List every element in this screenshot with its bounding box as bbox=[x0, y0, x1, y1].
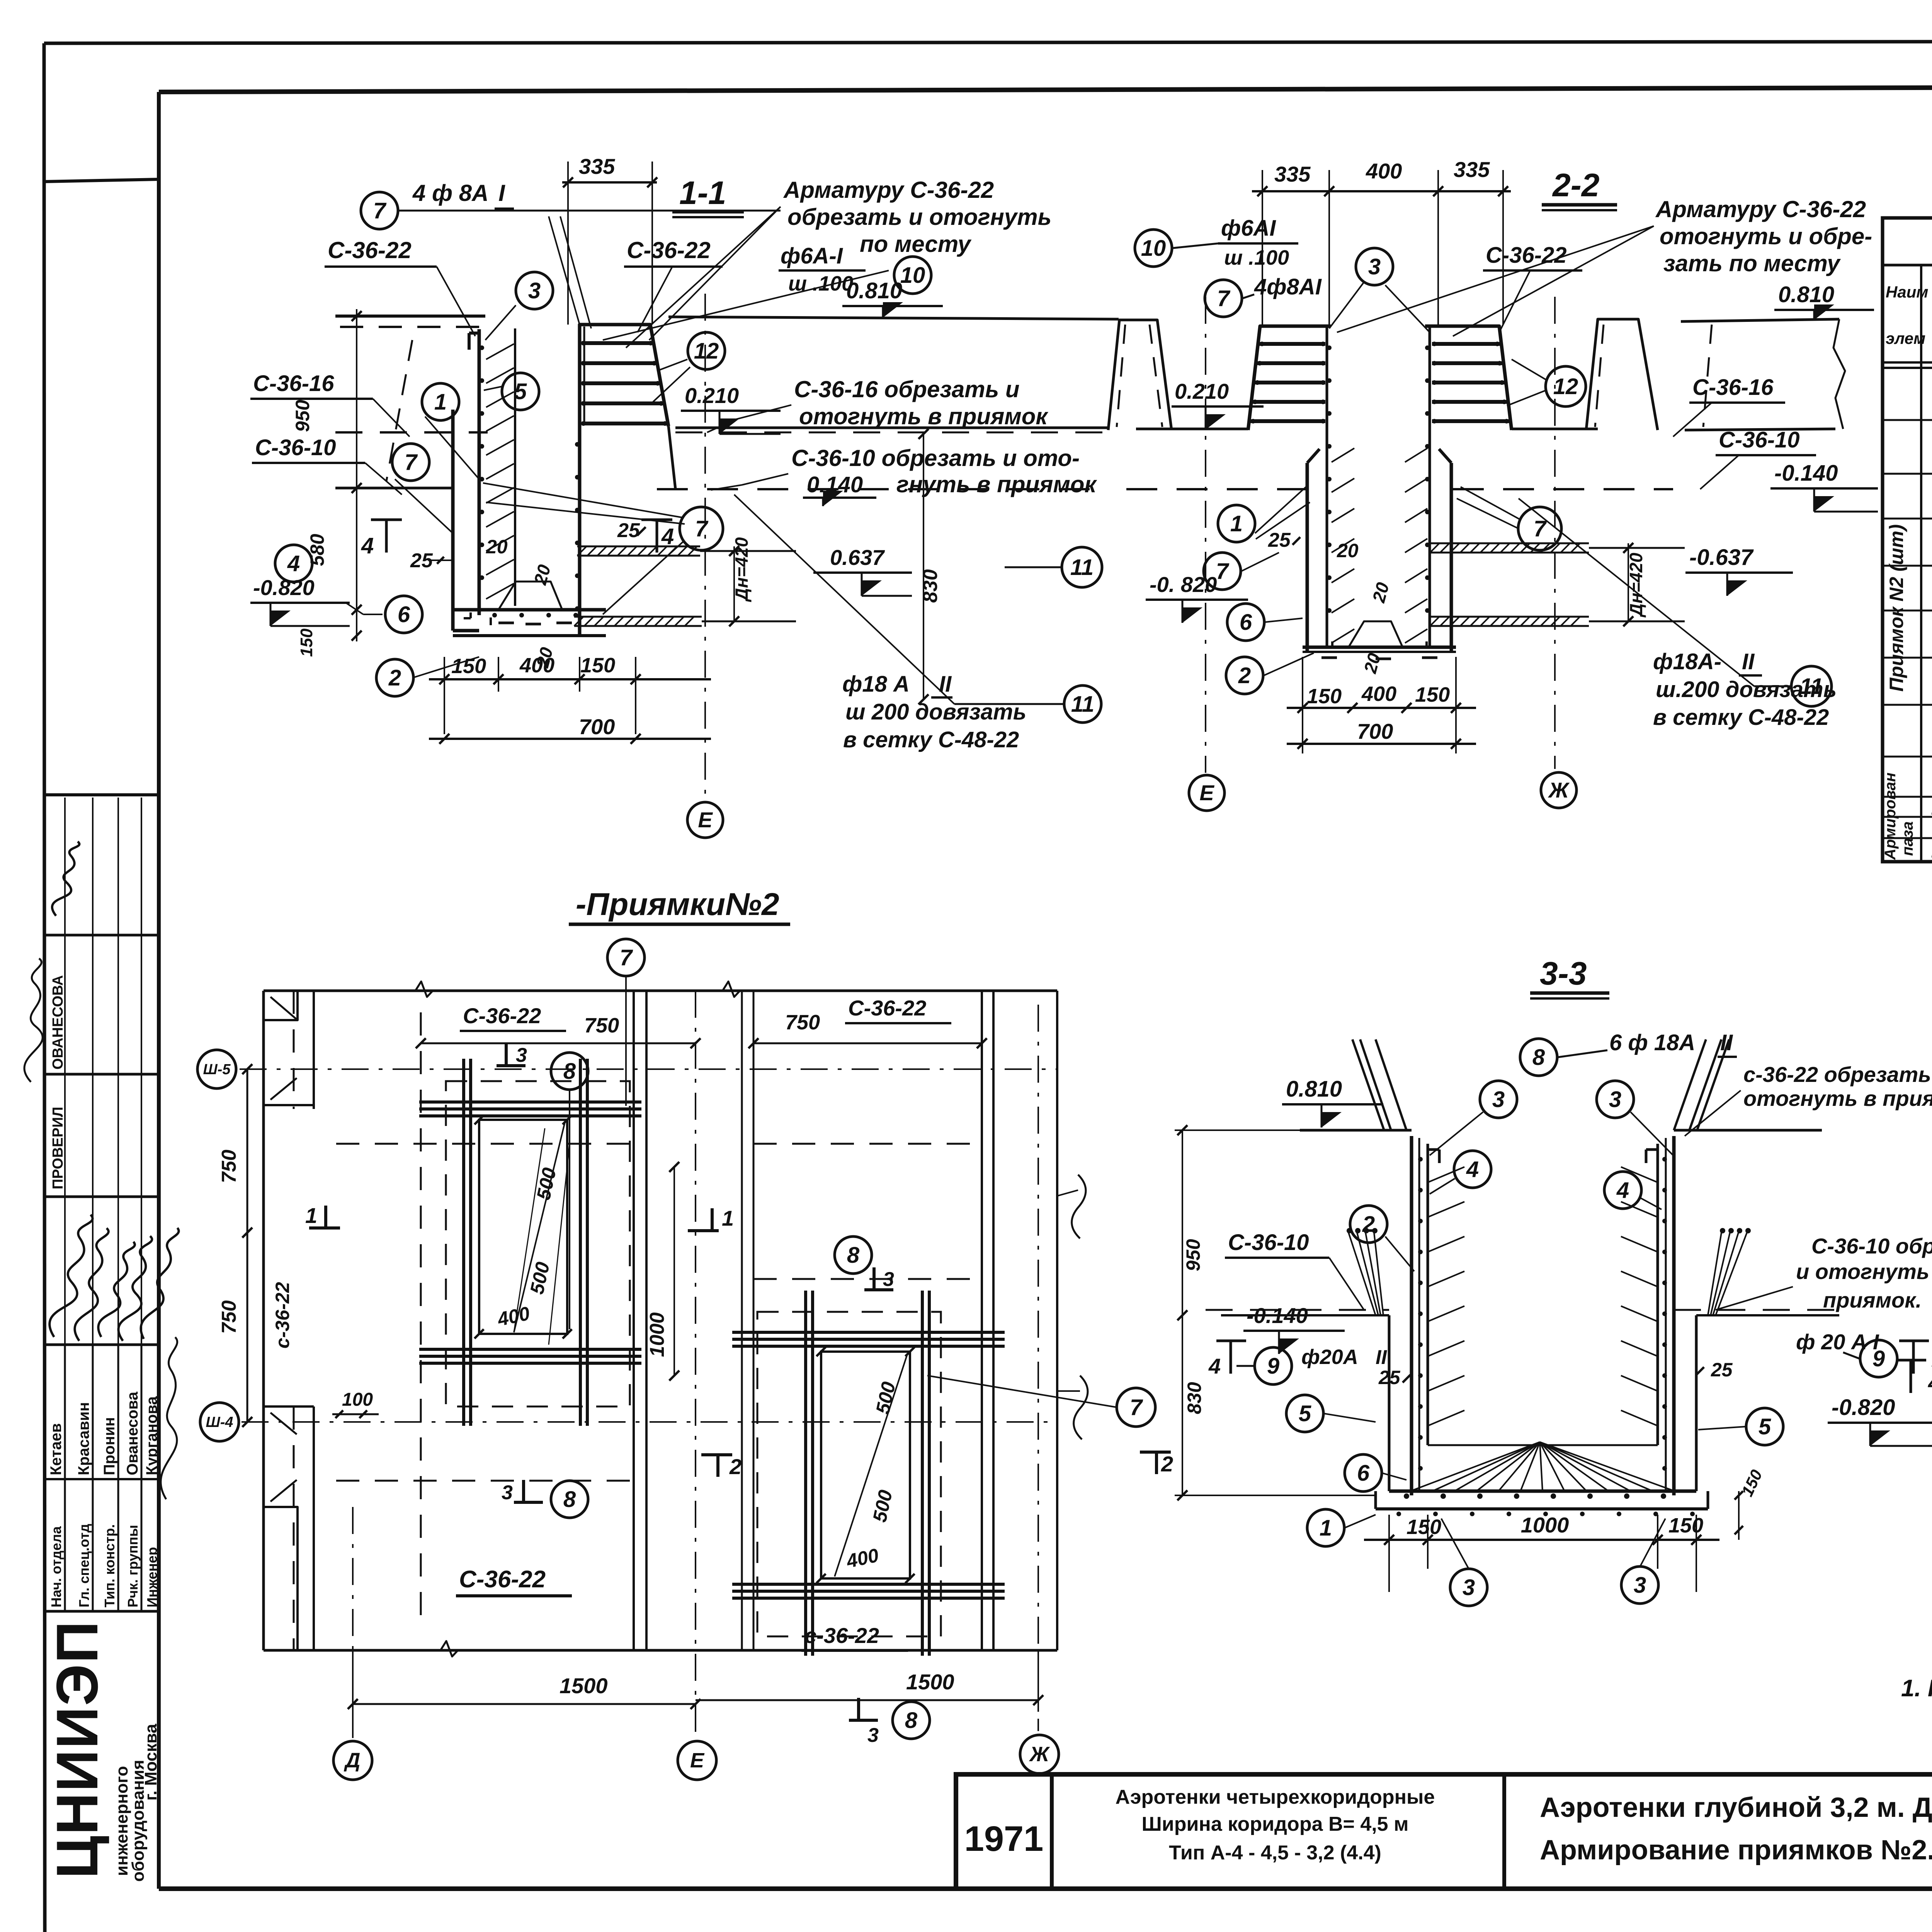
svg-text:10: 10 bbox=[1141, 236, 1166, 261]
svg-text:1. Примечания см. лист КС-17: 1. Примечания см. лист КС-17 bbox=[1901, 1675, 1932, 1702]
svg-text:7: 7 bbox=[373, 198, 387, 223]
svg-text:2: 2 bbox=[729, 1454, 742, 1479]
svg-text:20: 20 bbox=[486, 536, 508, 558]
svg-text:700: 700 bbox=[579, 714, 615, 739]
svg-text:7: 7 bbox=[695, 516, 709, 541]
svg-text:4: 4 bbox=[361, 533, 374, 558]
plan left pit bars horizontal bbox=[419, 1100, 641, 1104]
2-2 right ladder trapezoid bbox=[1425, 326, 1512, 430]
plan axis balloons bottom bbox=[333, 1741, 372, 1780]
svg-text:ф 20 А I: ф 20 А I bbox=[1796, 1330, 1879, 1354]
svg-text:II: II bbox=[939, 672, 952, 697]
2-2 balloon 10 bbox=[1135, 230, 1172, 267]
svg-text:ф20А: ф20А bbox=[1301, 1345, 1358, 1369]
1-1 shaft vertical line bbox=[514, 328, 516, 606]
plan right break squiggles bbox=[1072, 1175, 1086, 1238]
spec table outer border bbox=[1883, 218, 1932, 862]
svg-text:150: 150 bbox=[451, 655, 486, 678]
svg-text:4: 4 bbox=[287, 551, 300, 576]
svg-text:400: 400 bbox=[1361, 682, 1396, 706]
svg-text:5: 5 bbox=[1299, 1401, 1311, 1426]
plan dim 1000 rotated bbox=[673, 1167, 675, 1376]
svg-text:Наим: Наим bbox=[1886, 283, 1928, 301]
3-3 pit floor bbox=[1389, 1490, 1696, 1493]
svg-text:4: 4 bbox=[1616, 1178, 1629, 1203]
svg-text:7: 7 bbox=[1130, 1395, 1143, 1420]
svg-text:С-36-10: С-36-10 bbox=[255, 435, 336, 460]
plan right pit diagonal bbox=[835, 1354, 907, 1577]
svg-text:зать по месту: зать по месту bbox=[1663, 250, 1841, 276]
svg-text:3-3: 3-3 bbox=[1540, 955, 1587, 992]
svg-text:Тип. констр.: Тип. констр. bbox=[102, 1524, 117, 1607]
svg-text:12: 12 bbox=[694, 338, 719, 364]
svg-text:г. Москва: г. Москва bbox=[141, 1724, 160, 1801]
1-1 dim 700 bbox=[429, 738, 711, 740]
svg-text:ф6А-I: ф6А-I bbox=[781, 243, 844, 269]
svg-text:335: 335 bbox=[1274, 162, 1311, 186]
svg-text:6 ф 18А: 6 ф 18А bbox=[1609, 1030, 1695, 1055]
plan balloons 8 bbox=[551, 1053, 588, 1090]
2-2 far right slab with break bbox=[1681, 319, 1839, 321]
balloon 7 top bbox=[361, 192, 398, 229]
svg-text:1: 1 bbox=[305, 1203, 317, 1228]
svg-text:с-36-22: с-36-22 bbox=[804, 1623, 879, 1648]
svg-text:7: 7 bbox=[405, 450, 418, 475]
svg-text:12: 12 bbox=[1553, 374, 1578, 399]
1-1 top slab left edge bbox=[335, 315, 485, 318]
2-2 axis balloons E Zh bbox=[1189, 775, 1225, 811]
svg-text:25: 25 bbox=[1268, 529, 1291, 551]
svg-text:100: 100 bbox=[342, 1389, 373, 1410]
plan axis D vertical bbox=[352, 1507, 354, 1739]
2-2 right wall2 trapezoid bbox=[1586, 319, 1658, 430]
svg-text:С-36-22: С-36-22 bbox=[459, 1566, 546, 1593]
svg-text:II: II bbox=[1376, 1346, 1387, 1369]
1-1 balloon leaders bbox=[425, 417, 479, 479]
svg-text:11: 11 bbox=[1071, 692, 1094, 717]
plan axis III-5 bbox=[240, 1068, 1057, 1070]
svg-text:5: 5 bbox=[1759, 1414, 1771, 1439]
svg-text:по месту: по месту bbox=[860, 231, 972, 257]
svg-text:4: 4 bbox=[1928, 1371, 1932, 1395]
svg-text:4 ф 8А: 4 ф 8А bbox=[412, 180, 489, 206]
svg-text:1: 1 bbox=[722, 1206, 734, 1230]
svg-text:Ш-4: Ш-4 bbox=[206, 1414, 233, 1430]
svg-text:в сетку С-48-22: в сетку С-48-22 bbox=[843, 727, 1019, 752]
svg-text:400: 400 bbox=[519, 654, 554, 677]
svg-text:6: 6 bbox=[398, 602, 410, 627]
svg-text:700: 700 bbox=[1357, 719, 1393, 743]
2-2 pit bottom key bbox=[1349, 621, 1403, 647]
1-1 slab dashed diagonal bbox=[386, 340, 412, 481]
plan axis E vertical bbox=[695, 991, 696, 1739]
svg-text:Е: Е bbox=[698, 808, 713, 832]
svg-text:25: 25 bbox=[1711, 1359, 1733, 1381]
2-2 pit bottom hooks bbox=[1321, 656, 1337, 659]
1-1 slab mid dashed S-36-16 level bbox=[335, 431, 488, 434]
1-1 axis E dash-dot bbox=[704, 294, 706, 796]
3-3 right rebar fan bbox=[1708, 1233, 1721, 1315]
3-3 pit walls bbox=[1410, 1136, 1413, 1495]
sidebar signatures bbox=[45, 1213, 102, 1340]
svg-text:6: 6 bbox=[1240, 610, 1252, 635]
1-1 hatched slab bands right bbox=[577, 546, 700, 548]
svg-text:С-36-10 обрезать и ото-: С-36-10 обрезать и ото- bbox=[791, 445, 1080, 471]
svg-text:25: 25 bbox=[617, 519, 640, 542]
2-2 balloon 11 bbox=[1791, 666, 1832, 706]
svg-text:20: 20 bbox=[1337, 540, 1359, 561]
svg-text:-0.140: -0.140 bbox=[1774, 461, 1838, 486]
svg-text:ш .100: ш .100 bbox=[788, 272, 853, 295]
svg-text:элем: элем bbox=[1886, 329, 1925, 347]
svg-text:3: 3 bbox=[1463, 1575, 1475, 1600]
svg-text:Армирование приямков №2.: Армирование приямков №2. bbox=[1540, 1835, 1932, 1866]
svg-text:8: 8 bbox=[905, 1708, 918, 1733]
plan right pit opening rect bbox=[821, 1352, 910, 1578]
svg-text:Ж: Ж bbox=[1029, 1743, 1050, 1766]
3-3 wall inner bars bbox=[1428, 1167, 1464, 1182]
plan axis Zh vertical bbox=[1038, 990, 1057, 991]
sidebar signature cell squiggle bbox=[49, 840, 87, 918]
3-3 section mark 4 right bbox=[1912, 1341, 1915, 1374]
svg-text:2: 2 bbox=[1161, 1452, 1173, 1476]
svg-text:3: 3 bbox=[1492, 1087, 1505, 1112]
svg-text:150: 150 bbox=[1668, 1514, 1703, 1537]
svg-text:гнуть в приямок: гнуть в приямок bbox=[896, 471, 1097, 497]
svg-text:с-36-22 обрезать и: с-36-22 обрезать и bbox=[1743, 1062, 1932, 1087]
leader lines to wall top bbox=[549, 216, 580, 325]
svg-text:С-36-16 обрезать и: С-36-16 обрезать и bbox=[794, 376, 1020, 402]
3-3 left dim chain bbox=[1182, 1130, 1183, 1495]
svg-text:-0.820: -0.820 bbox=[1832, 1395, 1895, 1420]
plan section marks 1 bbox=[309, 1226, 340, 1230]
svg-text:ЦНИИЭП: ЦНИИЭП bbox=[44, 1620, 110, 1879]
svg-text:Инженер: Инженер bbox=[144, 1547, 160, 1607]
svg-text:5: 5 bbox=[514, 379, 527, 404]
svg-text:10: 10 bbox=[900, 263, 925, 288]
svg-text:С-36-22: С-36-22 bbox=[848, 996, 926, 1020]
svg-text:8: 8 bbox=[1532, 1045, 1545, 1070]
plan balloon 7 right bbox=[1117, 1388, 1155, 1427]
svg-text:Е: Е bbox=[1199, 781, 1214, 805]
2-2 floor dashed levels bbox=[1126, 488, 1306, 490]
svg-text:4: 4 bbox=[1208, 1354, 1221, 1378]
svg-text:-0. 820: -0. 820 bbox=[1150, 572, 1217, 597]
svg-text:11: 11 bbox=[1070, 555, 1094, 580]
svg-text:3: 3 bbox=[867, 1724, 879, 1747]
svg-text:и отогнуть в: и отогнуть в bbox=[1796, 1259, 1932, 1284]
spec table title dividers bbox=[1883, 264, 1932, 267]
svg-text:7: 7 bbox=[1217, 286, 1231, 311]
svg-text:ПРОВЕРИЛ: ПРОВЕРИЛ bbox=[50, 1107, 66, 1189]
svg-text:0.810: 0.810 bbox=[1286, 1077, 1342, 1102]
1-1 pit bottom slab bbox=[453, 608, 606, 612]
svg-text:ф18 А: ф18 А bbox=[842, 672, 910, 697]
svg-text:II: II bbox=[1742, 649, 1755, 674]
svg-text:ш .100: ш .100 bbox=[1224, 246, 1289, 269]
svg-text:1: 1 bbox=[1230, 511, 1243, 536]
1-1 floor right of wall bbox=[675, 427, 1108, 429]
svg-text:9: 9 bbox=[1267, 1354, 1279, 1379]
plan balloon 7 top bbox=[607, 939, 645, 976]
1-1 pit right wall bbox=[578, 426, 582, 636]
3-3 top slab lines bbox=[1300, 1129, 1412, 1132]
svg-text:паза: паза bbox=[1899, 821, 1916, 856]
plan section marks 3 bbox=[505, 1043, 508, 1066]
sidebar staff rows dividers bbox=[64, 1345, 66, 1611]
svg-text:Аэротенки глубиной 3,2 м.: Аэротенки глубиной 3,2 м. Днище. bbox=[1540, 1792, 1932, 1823]
svg-text:С-36-16: С-36-16 bbox=[1692, 375, 1774, 400]
svg-text:2: 2 bbox=[388, 665, 401, 690]
plan wall verticals bbox=[313, 991, 315, 1109]
sidebar stamp block top line bbox=[44, 793, 159, 796]
plan left pit dashed outline bbox=[446, 1081, 630, 1406]
svg-text:750: 750 bbox=[785, 1011, 820, 1034]
svg-text:950: 950 bbox=[292, 400, 313, 432]
svg-text:1000: 1000 bbox=[1521, 1513, 1569, 1537]
svg-text:3: 3 bbox=[883, 1268, 894, 1291]
plan right pit bars horizontal bbox=[732, 1331, 1005, 1334]
plan section marks 2 bbox=[701, 1453, 732, 1456]
outer sheet border bbox=[44, 41, 1932, 43]
3-3 wall rebar verticals bbox=[1418, 1138, 1420, 1490]
svg-text:1971: 1971 bbox=[964, 1819, 1044, 1859]
svg-text:Ширина коридора В= 4,5 м: Ширина коридора В= 4,5 м bbox=[1141, 1813, 1408, 1835]
plan top dims 750 bbox=[421, 1043, 696, 1044]
1-1 wall right face below floor bbox=[668, 426, 675, 489]
1-1 ladder trapezoid wall bbox=[580, 325, 668, 426]
svg-text:8: 8 bbox=[847, 1243, 860, 1268]
plan left wall chamfers bbox=[270, 997, 298, 1020]
svg-text:Тип А-4 - 4,5 - 3,2 (4.4): Тип А-4 - 4,5 - 3,2 (4.4) bbox=[1169, 1842, 1381, 1864]
3-3 left rebar fan to wall bbox=[1349, 1233, 1376, 1315]
svg-text:150: 150 bbox=[297, 628, 316, 657]
svg-text:3: 3 bbox=[1368, 254, 1381, 279]
svg-text:8: 8 bbox=[563, 1487, 576, 1512]
svg-text:3: 3 bbox=[516, 1044, 527, 1066]
svg-text:1500: 1500 bbox=[906, 1670, 954, 1694]
svg-text:1-1: 1-1 bbox=[679, 175, 726, 211]
3-3 cut rebar slants above bbox=[1360, 1039, 1391, 1130]
2-2 shaft wall hatch bbox=[1332, 448, 1354, 462]
svg-text:4: 4 bbox=[1466, 1157, 1479, 1182]
svg-text:11: 11 bbox=[1800, 674, 1823, 699]
2-2 balloons left bbox=[1218, 505, 1255, 542]
2-2 top dims 335 400 335 bbox=[1252, 190, 1511, 192]
3-3 left outer floor bbox=[1221, 1314, 1389, 1316]
svg-text:Арматуру С-36-22: Арматуру С-36-22 bbox=[1655, 196, 1866, 222]
svg-text:отогнуть в приямок: отогнуть в приямок bbox=[1743, 1086, 1932, 1111]
sidebar stamp thin verticals bbox=[64, 798, 66, 1345]
svg-text:0.210: 0.210 bbox=[1175, 379, 1229, 403]
1-1 section mark 4 top bbox=[385, 520, 388, 553]
balloon E bottom 1-1 bbox=[687, 802, 723, 838]
svg-text:400: 400 bbox=[1366, 159, 1402, 183]
svg-text:0.210: 0.210 bbox=[685, 383, 739, 408]
plan dashed inner lines bbox=[293, 991, 295, 1109]
svg-text:25: 25 bbox=[1378, 1367, 1401, 1388]
svg-text:3: 3 bbox=[528, 278, 541, 303]
svg-text:830: 830 bbox=[1184, 1382, 1205, 1414]
1-1 balloon 11 right bbox=[1062, 547, 1102, 587]
svg-text:7: 7 bbox=[1216, 559, 1230, 584]
svg-text:Красавин: Красавин bbox=[75, 1402, 92, 1475]
svg-text:335: 335 bbox=[1454, 157, 1490, 182]
3-3 balloons bbox=[1480, 1081, 1517, 1118]
3-3 dim 150 right rotated bbox=[1738, 1491, 1740, 1540]
svg-text:отогнуть и обре-: отогнуть и обре- bbox=[1660, 223, 1872, 249]
svg-text:3: 3 bbox=[502, 1481, 513, 1504]
svg-text:I: I bbox=[498, 180, 505, 206]
3-3 right outer floor bbox=[1696, 1314, 1839, 1316]
title block frame bbox=[956, 1774, 1932, 1889]
svg-text:Рчк. группы: Рчк. группы bbox=[125, 1525, 141, 1607]
plan outer boundary bbox=[264, 990, 1057, 992]
svg-text:Гл. спец.отд: Гл. спец.отд bbox=[76, 1524, 92, 1607]
svg-text:ф6АI: ф6АI bbox=[1221, 216, 1276, 241]
svg-text:С-36-16: С-36-16 bbox=[253, 371, 334, 396]
svg-text:С-36-10 обрезать: С-36-10 обрезать bbox=[1811, 1234, 1932, 1258]
svg-text:3: 3 bbox=[1609, 1087, 1621, 1112]
plan break marks bbox=[415, 981, 433, 997]
svg-text:Аэротенки четырехкоридорные: Аэротенки четырехкоридорные bbox=[1116, 1786, 1435, 1808]
4-4 section marks bottom left bbox=[1910, 1360, 1912, 1393]
plan left pit opening rect bbox=[479, 1120, 567, 1334]
2-2 axes dash-dot bbox=[1205, 297, 1206, 773]
svg-text:950: 950 bbox=[1182, 1239, 1204, 1271]
svg-text:-0.637: -0.637 bbox=[1689, 545, 1754, 570]
3-3 top hooks bbox=[1428, 1148, 1439, 1151]
2-2 bottom dims bbox=[1287, 707, 1476, 709]
svg-text:Ж: Ж bbox=[1548, 778, 1570, 802]
svg-text:Ш-5: Ш-5 bbox=[203, 1061, 231, 1078]
2-2 balloon 12 bbox=[1546, 366, 1586, 406]
1-1 ladder inner verticals bbox=[583, 327, 585, 425]
svg-text:Приямок N2 (шт): Приямок N2 (шт) bbox=[1886, 524, 1907, 692]
2-2 balloon 7 right bbox=[1518, 507, 1561, 550]
1-1 pit left wall rebar with hook bbox=[478, 329, 481, 615]
svg-text:Арматуру С-36-22: Арматуру С-36-22 bbox=[783, 177, 994, 203]
svg-text:150: 150 bbox=[580, 654, 615, 677]
svg-text:С-36-22: С-36-22 bbox=[1486, 243, 1567, 268]
svg-text:580: 580 bbox=[306, 534, 328, 566]
1-1 slab lower line S-36-10 level bbox=[335, 487, 453, 490]
svg-text:335: 335 bbox=[579, 154, 615, 179]
1-1 balloons bbox=[516, 272, 553, 309]
1-1 pit left wall outer bbox=[451, 410, 455, 631]
svg-text:3: 3 bbox=[1634, 1573, 1646, 1598]
1-1 wall hatch ticks bbox=[486, 344, 514, 359]
svg-text:750: 750 bbox=[584, 1014, 619, 1037]
svg-text:7: 7 bbox=[620, 945, 633, 970]
svg-text:4: 4 bbox=[661, 524, 674, 549]
svg-text:2: 2 bbox=[1362, 1212, 1375, 1237]
svg-text:Курганова: Курганова bbox=[143, 1396, 160, 1475]
svg-text:С-36-22: С-36-22 bbox=[627, 237, 711, 263]
spec table row lines bbox=[1883, 419, 1932, 421]
svg-text:-Приямки№2: -Приямки№2 bbox=[576, 887, 779, 922]
svg-text:0.810: 0.810 bbox=[846, 278, 902, 303]
svg-text:с-36-22: с-36-22 bbox=[272, 1282, 293, 1349]
plan left pit bars vertical bbox=[462, 1059, 465, 1426]
inner drawing frame bbox=[159, 86, 1932, 92]
title block columns bbox=[1050, 1774, 1054, 1889]
svg-text:Ованесова: Ованесова bbox=[124, 1391, 141, 1475]
svg-text:2: 2 bbox=[1238, 663, 1251, 688]
svg-text:Пронин: Пронин bbox=[101, 1417, 118, 1475]
sidebar top divider bbox=[44, 179, 159, 182]
svg-text:150: 150 bbox=[1415, 683, 1450, 706]
svg-text:Нач. отдела: Нач. отдела bbox=[48, 1526, 64, 1607]
svg-text:С-36-10: С-36-10 bbox=[1228, 1230, 1309, 1255]
svg-text:9: 9 bbox=[1872, 1346, 1885, 1371]
svg-text:1: 1 bbox=[434, 389, 447, 415]
2-2 hatched bands bbox=[1430, 543, 1589, 544]
svg-text:1000: 1000 bbox=[646, 1312, 668, 1357]
1-1 pit bottom key trapezoid bbox=[498, 582, 562, 610]
svg-text:С-36-22: С-36-22 bbox=[328, 237, 412, 263]
svg-text:ф18А-: ф18А- bbox=[1653, 649, 1721, 674]
1-1 bottom dim line bbox=[429, 678, 711, 680]
sidebar stamp dividers bbox=[44, 934, 159, 937]
svg-text:150: 150 bbox=[1406, 1515, 1441, 1539]
svg-text:0.810: 0.810 bbox=[1778, 282, 1834, 307]
1-1 pit bottom rebar hooks bbox=[498, 622, 514, 624]
svg-text:-0.140: -0.140 bbox=[1247, 1303, 1308, 1328]
svg-text:ОВАНЕСОВА: ОВАНЕСОВА bbox=[50, 975, 66, 1070]
plan left pit diagonal bbox=[514, 1122, 565, 1332]
svg-text:4ф8АI: 4ф8АI bbox=[1254, 274, 1322, 299]
svg-text:отогнуть в приямок: отогнуть в приямок bbox=[799, 403, 1048, 429]
svg-text:в сетку С-48-22: в сетку С-48-22 bbox=[1653, 705, 1829, 730]
3-3 floor fan bbox=[1410, 1442, 1540, 1491]
1-1 second wall trapezoid bbox=[1108, 320, 1172, 430]
2-2 rebar dots bbox=[1327, 345, 1332, 350]
spec table header underline double bbox=[1883, 361, 1932, 364]
svg-text:Кетаев: Кетаев bbox=[48, 1423, 65, 1475]
svg-text:830: 830 bbox=[919, 569, 942, 603]
plan left dims 750 750 bbox=[247, 1069, 248, 1422]
1-1 section mark 4 right bbox=[656, 520, 658, 553]
svg-text:0.637: 0.637 bbox=[830, 545, 885, 570]
plan right pit bars vertical bbox=[804, 1291, 807, 1656]
3-3 balloon 8 and label bbox=[1520, 1039, 1557, 1076]
svg-text:150: 150 bbox=[1307, 685, 1342, 708]
plan axis III-4 bbox=[241, 1421, 1057, 1423]
plan top-left corner walls bbox=[264, 991, 298, 1020]
svg-text:750: 750 bbox=[218, 1150, 240, 1183]
svg-text:8: 8 bbox=[563, 1059, 576, 1084]
3-3 section mark 4 left bbox=[1230, 1341, 1232, 1374]
svg-text:приямок.: приямок. bbox=[1823, 1288, 1922, 1312]
1-1 balloon 11 bottom bbox=[1064, 685, 1101, 723]
svg-text:Армирован: Армирован bbox=[1882, 772, 1899, 860]
2-2 pit wall top hooks bbox=[1307, 449, 1320, 463]
spec table column lines bbox=[1920, 265, 1922, 862]
svg-text:1500: 1500 bbox=[560, 1673, 608, 1698]
svg-text:750: 750 bbox=[218, 1300, 240, 1334]
2-2 pit bottom bbox=[1303, 646, 1456, 649]
svg-text:Д: Д bbox=[344, 1749, 361, 1772]
2-2 balloon 7 bbox=[1205, 280, 1242, 317]
svg-text:С-36-22: С-36-22 bbox=[463, 1003, 541, 1028]
2-2 balloon 3 bbox=[1356, 248, 1393, 285]
1-1 corridor slab top line bbox=[668, 317, 1119, 319]
svg-text:Е: Е bbox=[690, 1749, 705, 1772]
3-3 bottom dim line bbox=[1364, 1539, 1719, 1541]
plan bottom dims 1500 bbox=[353, 1703, 696, 1705]
balloon 10 right of 1-1 bbox=[894, 257, 931, 294]
